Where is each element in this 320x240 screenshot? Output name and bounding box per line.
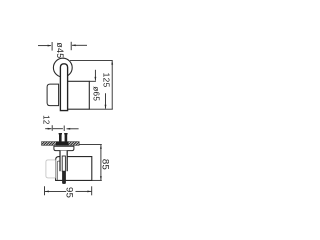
dimension 95 extension tick right <box>91 186 93 195</box>
hanger rod with rounded top <box>60 64 67 111</box>
dimension 12 left arrow <box>45 128 52 130</box>
ø65 bottom arrow (pointing down) <box>105 93 107 109</box>
dimension line 85 <box>100 145 102 181</box>
svg-text:ø45: ø45 <box>55 42 65 58</box>
dimension 12 extension tick right <box>63 126 65 132</box>
glass cup bottom (rounded left end) <box>47 84 59 106</box>
dimension line ø45 left arrow <box>38 45 52 47</box>
escutcheon flange <box>54 146 74 150</box>
dimension ø45 extension tick left <box>51 42 53 51</box>
extension line 85 top (from wall plate) <box>79 144 102 146</box>
svg-text:125: 125 <box>102 73 112 88</box>
glass inner contour line <box>57 161 63 180</box>
holder rod lower section <box>62 156 66 184</box>
dimension line 125 <box>111 60 113 109</box>
extension line ø65 top <box>89 80 96 82</box>
dimension 12 middle line <box>53 128 63 130</box>
dimension 95 left segment <box>45 190 66 192</box>
ø65 top arrow (outside, pointing down) <box>94 70 96 81</box>
glass (profile view) main outline <box>56 157 92 181</box>
glass cup body (side view, rim at right) <box>63 81 89 109</box>
glass bottom tab (faint) <box>46 160 56 178</box>
svg-text:12: 12 <box>42 115 51 125</box>
wall flange circle ø45 <box>53 58 72 77</box>
svg-text:95: 95 <box>64 187 75 198</box>
extension line top (to 125 dimension) <box>70 59 113 61</box>
holder arm (two vertical lines) <box>60 151 67 172</box>
wall plate (hatched) <box>42 142 80 146</box>
dimension ø45 extension tick right <box>70 42 72 50</box>
wall screw left <box>59 133 62 142</box>
dimension 95 extension tick left <box>44 186 46 195</box>
dimension 12 right arrow <box>66 128 78 130</box>
extension line bottom (cup bottom to 125 dimension) <box>89 108 113 110</box>
extension line 85 bottom (glass front) <box>92 179 102 181</box>
dimension line ø45 right arrow <box>72 44 87 46</box>
svg-text:85: 85 <box>100 159 111 170</box>
dimension 12 extension tick left <box>51 125 53 131</box>
wall screw right <box>64 133 67 142</box>
dimension 95 right segment <box>76 190 92 192</box>
svg-text:ø65: ø65 <box>92 86 101 101</box>
